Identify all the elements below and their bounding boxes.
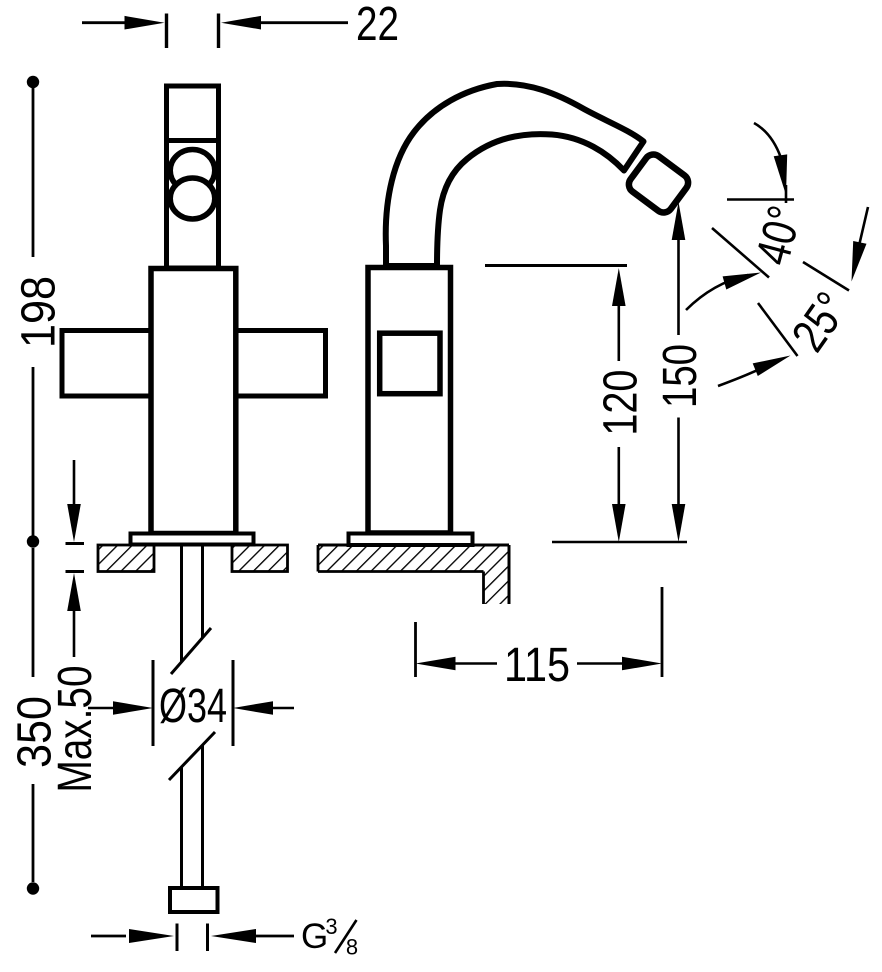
left figure: supply nut (170, 888, 218, 912)
right figure: spout nozzle (625, 151, 691, 216)
left figure: counter hatched block right (232, 545, 288, 572)
left figure: counter hatched block left (98, 545, 154, 572)
angle 40: reference line and tick (727, 198, 794, 201)
right figure: base plate (349, 534, 473, 546)
angle 25: straight leader arrow right (858, 207, 868, 250)
dimension 150: dimension line with arrows (672, 202, 686, 240)
dimension O34: extension ticks (152, 660, 155, 746)
dimension Max.50: lower arrow (66, 570, 85, 573)
svg-text:150: 150 (654, 344, 707, 408)
dimension 120/150: bottom reference line (552, 541, 687, 544)
dimension 120: dimension line with arrows (612, 268, 626, 306)
left figure: rod break slash upper (171, 628, 211, 674)
dimension 198: vertical line with end dots (27, 76, 39, 88)
right figure: counter cross-section with hatch (318, 545, 509, 604)
dimension 22: left arrow (82, 21, 126, 24)
left figure: rod break slash lower (169, 732, 215, 780)
right figure: cartridge window (380, 333, 440, 394)
left figure: upper circle of outlet (170, 150, 215, 192)
svg-text:40°: 40° (746, 201, 812, 271)
svg-text:Ø34: Ø34 (159, 680, 227, 733)
left figure: base plate (131, 534, 254, 545)
dimension 120: top reference line (485, 264, 627, 267)
svg-text:8: 8 (346, 935, 358, 960)
dimension 115: arrows (416, 657, 456, 671)
left figure: faucet body (151, 269, 236, 534)
left figure: handle cross bar (62, 331, 326, 397)
svg-text:3: 3 (325, 914, 337, 939)
dimension 115: extension lines (414, 622, 417, 677)
right figure: faucet body (368, 268, 451, 534)
left figure: lower circle of outlet (170, 178, 215, 219)
left figure: threaded rod lower segment (180, 767, 183, 888)
svg-text:Max.50: Max.50 (49, 666, 102, 793)
svg-text:198: 198 (13, 276, 66, 348)
dimension G3/8: extension ticks (176, 924, 179, 952)
dimension 350: vertical line continuation with end dot (32, 548, 35, 677)
left figure: upper outlet column (167, 86, 219, 268)
dimension Max.50: upper arrow (73, 460, 76, 505)
svg-text:120: 120 (594, 370, 647, 436)
dimension 22: right arrow and line (221, 16, 261, 30)
svg-text:115: 115 (504, 639, 570, 692)
angle 40: boundary line upper (712, 228, 769, 278)
left figure: column divider line (164, 138, 221, 143)
angle 25: boundary line lower (758, 303, 798, 356)
left figure: threaded rod upper segment (180, 546, 183, 662)
dimension G3/8: arrows (91, 935, 126, 938)
dimension O34: arrows (88, 707, 115, 710)
svg-text:22: 22 (356, 0, 399, 51)
dimension 22: extension ticks (165, 14, 168, 49)
angle 25: curved leader arrow bottom (718, 360, 778, 386)
svg-text:G: G (301, 917, 328, 956)
angle 40: curved leader arrow top (754, 123, 781, 158)
angle 25: boundary line upper (803, 262, 849, 291)
right figure: spout tube (386, 84, 644, 266)
angle 40: curved leader arrow left (686, 275, 748, 310)
